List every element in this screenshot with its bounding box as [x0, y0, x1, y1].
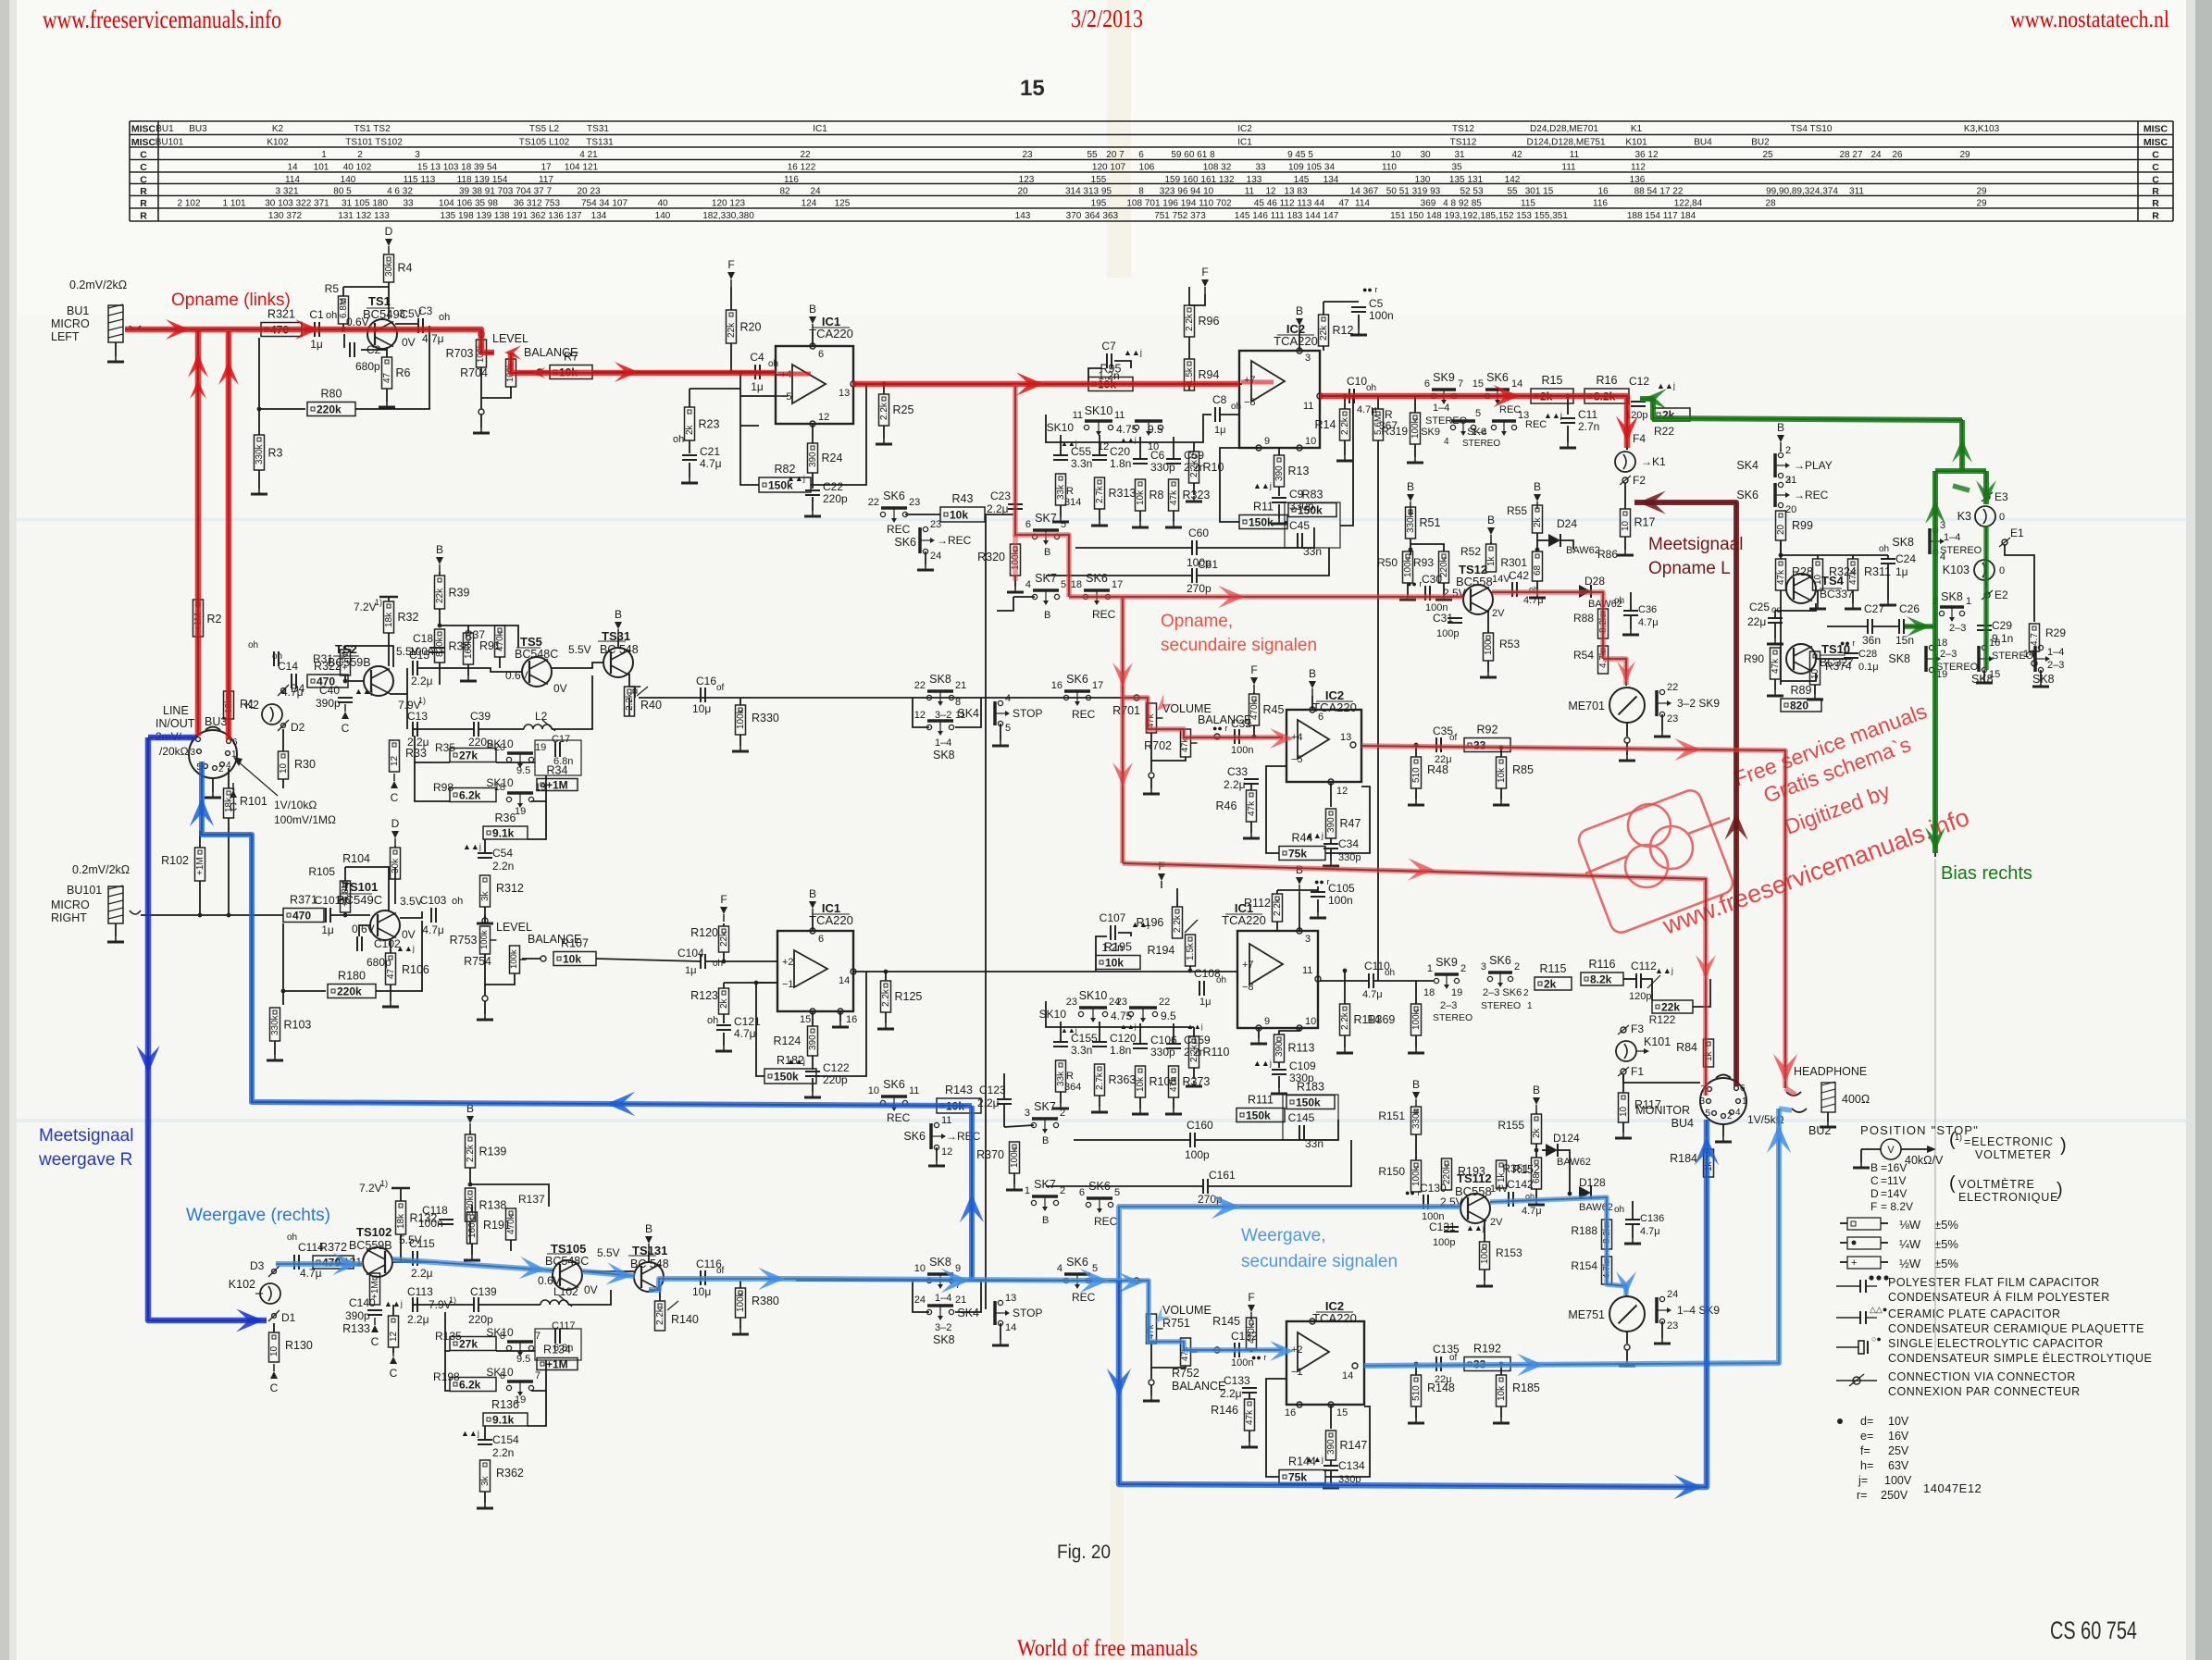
- svg-text:6: 6: [1318, 712, 1323, 723]
- svg-text:88 54 17 22: 88 54 17 22: [1634, 187, 1684, 197]
- resistor R152: [1497, 1160, 1507, 1188]
- svg-text:4.7μ: 4.7μ: [422, 923, 444, 936]
- svg-text:SK7: SK7: [1034, 1178, 1056, 1191]
- resistor R29: [2030, 624, 2040, 651]
- svg-text:1): 1): [449, 1295, 456, 1305]
- svg-text:7: 7: [1458, 378, 1463, 390]
- light blue path K102 to TS102: [276, 1261, 363, 1267]
- svg-text:R102: R102: [161, 854, 189, 867]
- svg-text:17: 17: [1092, 680, 1103, 691]
- filter resistors R314 R313 R8 R323: [1056, 474, 1066, 505]
- svg-text:LEVEL: LEVEL: [496, 921, 532, 934]
- resistor R150: [1411, 1160, 1422, 1192]
- svg-text:13 83: 13 83: [1284, 187, 1307, 197]
- svg-text:C: C: [371, 1335, 379, 1348]
- horizontal crease line upper: [17, 518, 2192, 521]
- svg-text:C39: C39: [470, 710, 491, 723]
- svg-text:B: B: [1533, 1084, 1540, 1096]
- svg-text:B: B: [1042, 1135, 1049, 1146]
- svg-text:131 132 133: 131 132 133: [338, 211, 390, 221]
- svg-text:R130: R130: [285, 1339, 313, 1352]
- switch SK4 STOP lower: [998, 1300, 1002, 1305]
- svg-text:106: 106: [1139, 163, 1155, 173]
- svg-text:2.2μ: 2.2μ: [977, 1096, 1000, 1109]
- svg-text:6: 6: [1079, 1187, 1085, 1198]
- svg-text:SK10: SK10: [1079, 989, 1108, 1002]
- svg-text:▲▲j: ▲▲j: [1466, 1223, 1485, 1233]
- svg-text:R112: R112: [1244, 897, 1271, 910]
- connector E3: [1984, 494, 1990, 500]
- svg-text:R30: R30: [294, 758, 316, 771]
- svg-text:20 23: 20 23: [577, 187, 600, 197]
- transistor TS112: [1460, 1194, 1490, 1223]
- connector F2: [1622, 477, 1628, 483]
- svg-text:+1M: +1M: [341, 651, 351, 670]
- svg-text:1μ: 1μ: [1199, 997, 1211, 1008]
- svg-text:111: 111: [1561, 163, 1576, 173]
- wires SK10 block lower: [445, 1312, 450, 1351]
- resistor R10: [1189, 452, 1199, 483]
- svg-text:3: 3: [1305, 353, 1311, 364]
- resistor R88: [1598, 609, 1609, 638]
- crimson headphone hook: [1785, 1088, 1796, 1095]
- svg-text:100n: 100n: [1369, 309, 1394, 322]
- svg-text:BU1: BU1: [155, 124, 174, 134]
- svg-text:R188: R188: [1571, 1224, 1597, 1237]
- svg-text:390p: 390p: [345, 1309, 370, 1322]
- svg-text:23: 23: [909, 497, 920, 508]
- light blue TS112 to ME751: [1490, 1197, 1626, 1295]
- svg-text:17: 17: [541, 163, 552, 173]
- svg-text:=ELECTRONIC: =ELECTRONIC: [1964, 1135, 2054, 1148]
- svg-text:4.7μ: 4.7μ: [734, 1027, 756, 1040]
- svg-text:LEFT: LEFT: [51, 330, 80, 343]
- svg-text:36n: 36n: [1862, 634, 1881, 647]
- svg-text:55: 55: [1507, 187, 1518, 197]
- svg-text:13: 13: [1340, 732, 1351, 743]
- svg-text:VOLTMÈTRE: VOLTMÈTRE: [1958, 1177, 2035, 1191]
- svg-text:68: 68: [1533, 564, 1543, 576]
- svg-text:21: 21: [1785, 475, 1796, 486]
- arrow to BU3 note: [237, 761, 278, 796]
- svg-text:R192: R192: [1473, 1343, 1501, 1356]
- capacitor C60: [1191, 540, 1193, 555]
- svg-text:R301: R301: [1500, 556, 1527, 569]
- svg-text:100mV/1MΩ: 100mV/1MΩ: [274, 813, 336, 826]
- svg-text:22k: 22k: [1661, 1001, 1680, 1014]
- svg-text:POLYESTER FLAT FILM CAPACIT: POLYESTER FLAT FILM CAPACITOR: [1888, 1276, 2100, 1289]
- svg-text:370: 370: [1066, 211, 1082, 221]
- svg-text:C5: C5: [1369, 297, 1384, 310]
- svg-text:B: B: [809, 303, 816, 316]
- svg-text:BC559B: BC559B: [349, 1239, 392, 1252]
- svg-text:1: 1: [321, 150, 327, 160]
- svg-text:2V: 2V: [1492, 608, 1505, 619]
- svg-text:(: (: [1949, 1173, 1956, 1194]
- svg-text:oh: oh: [673, 434, 684, 445]
- svg-text:470k: 470k: [1247, 1322, 1257, 1344]
- svg-text:LEVEL: LEVEL: [492, 332, 528, 345]
- svg-text:B: B: [1407, 480, 1414, 493]
- svg-text:R116: R116: [1589, 958, 1616, 971]
- svg-text:4 21: 4 21: [579, 150, 598, 160]
- svg-text:STOP: STOP: [1013, 707, 1042, 720]
- svg-text:1V/10kΩ: 1V/10kΩ: [274, 799, 317, 811]
- svg-text:R: R: [140, 198, 147, 209]
- svg-text:2–3: 2–3: [1940, 649, 1957, 660]
- wire under crimson paths: [1015, 386, 1069, 597]
- svg-text:BU101: BU101: [155, 138, 184, 148]
- svg-text:143: 143: [1015, 211, 1031, 221]
- svg-text:D4: D4: [291, 682, 305, 695]
- connector K1: [1615, 452, 1635, 472]
- wire bus y1384: [796, 1280, 1119, 1282]
- svg-text:▲▲j: ▲▲j: [1655, 966, 1673, 975]
- svg-text:10: 10: [1305, 1016, 1316, 1027]
- svg-text:▲▲j: ▲▲j: [1124, 348, 1142, 357]
- svg-text:MICRO: MICRO: [51, 317, 90, 330]
- svg-text:C17: C17: [552, 734, 570, 745]
- resistor R96: [1185, 305, 1195, 337]
- resistor R40: [634, 687, 636, 698]
- svg-text:TCA220: TCA220: [1222, 913, 1266, 927]
- svg-text:R39: R39: [449, 586, 470, 599]
- svg-text:R82: R82: [775, 463, 796, 476]
- svg-text:secundaire signalen: secundaire signalen: [1241, 1252, 1398, 1271]
- svg-text:R704: R704: [460, 366, 488, 379]
- svg-text:2k: 2k: [1532, 1127, 1542, 1138]
- light blue branch TS112: [1119, 1207, 1460, 1281]
- svg-text:C: C: [140, 175, 147, 186]
- svg-text:2–3: 2–3: [1440, 1000, 1457, 1011]
- svg-text:C13: C13: [407, 710, 428, 723]
- op-amp IC1 upper: [776, 346, 853, 424]
- svg-text:330k: 330k: [1406, 512, 1416, 533]
- svg-text:25V: 25V: [1888, 1444, 1909, 1457]
- svg-text:2: 2: [1785, 445, 1791, 456]
- svg-text:100k: 100k: [736, 1291, 746, 1312]
- capacitor C160: [1189, 1133, 1191, 1147]
- svg-text:13: 13: [1005, 1293, 1016, 1304]
- resistor R93: [1439, 551, 1449, 583]
- capacitor C161: [1202, 1179, 1204, 1194]
- balance pot R702: [1181, 729, 1191, 757]
- resistor R131: [370, 1273, 380, 1305]
- red path IC2 out to K1: [1320, 396, 1627, 448]
- svg-text:4.7μ: 4.7μ: [700, 457, 722, 470]
- switch SK8 24-21 bus lower: [926, 1309, 931, 1314]
- svg-text:9.5: 9.5: [516, 765, 530, 776]
- capacitor C42: [1511, 582, 1513, 597]
- svg-text:4.7: 4.7: [2030, 633, 2040, 646]
- resistor R120: [719, 926, 729, 952]
- svg-text:E3: E3: [1995, 490, 2008, 503]
- resistor R22 on green path: [1653, 408, 1690, 421]
- svg-text:K3,K103: K3,K103: [1964, 124, 2000, 134]
- svg-text:18: 18: [1071, 579, 1082, 590]
- svg-text:1: 1: [1025, 1185, 1030, 1196]
- svg-text:D28: D28: [1584, 575, 1605, 588]
- svg-text:4.7μ: 4.7μ: [1638, 617, 1659, 628]
- svg-text:2.2k: 2.2k: [1340, 1011, 1350, 1030]
- svg-text:820k: 820k: [435, 636, 445, 657]
- svg-text:BAW62: BAW62: [1566, 545, 1600, 556]
- svg-text:1): 1): [380, 1179, 388, 1188]
- svg-text:C113: C113: [407, 1285, 433, 1298]
- svg-text:R84: R84: [1676, 1041, 1697, 1054]
- svg-text:100k: 100k: [1010, 1146, 1020, 1168]
- svg-text:BC548C: BC548C: [545, 1255, 589, 1268]
- switch SK10 R35: [450, 749, 496, 762]
- svg-text:9.1k: 9.1k: [492, 1414, 515, 1427]
- svg-text:9: 9: [1264, 436, 1270, 447]
- resistor R180: [283, 923, 326, 991]
- svg-text:24: 24: [930, 551, 941, 562]
- svg-text:R20: R20: [740, 320, 762, 333]
- svg-text:19: 19: [535, 742, 546, 753]
- svg-text:22: 22: [868, 497, 879, 508]
- svg-text:18k: 18k: [384, 612, 394, 627]
- svg-text:REC: REC: [887, 1111, 911, 1124]
- capacitor C11: [1566, 394, 1571, 399]
- svg-text:15: 15: [1020, 76, 1045, 101]
- transistor TS10: [1786, 644, 1816, 674]
- resistor R372: [313, 1256, 354, 1269]
- svg-text:R43: R43: [952, 492, 974, 505]
- svg-text:16: 16: [1989, 638, 2000, 649]
- svg-text:C104: C104: [677, 947, 704, 960]
- svg-text:C61: C61: [1198, 558, 1218, 571]
- capacitor C140: [367, 1309, 382, 1311]
- resistor R330: [736, 705, 746, 735]
- svg-text:R330: R330: [752, 712, 779, 725]
- switch SK6 10-11 blue line: [880, 1100, 885, 1105]
- svg-text:→REC: →REC: [946, 1130, 981, 1143]
- svg-text:2.2k: 2.2k: [1173, 914, 1183, 933]
- svg-text:510: 510: [1411, 767, 1422, 783]
- resistor R82 feedback IC1: [740, 425, 759, 427]
- wire under red IC1-IC2: [853, 383, 1239, 385]
- resistor R374: [1810, 651, 1821, 685]
- capacitor C107 R195 feedback: [1096, 936, 1107, 971]
- left scanner edge strip: [0, 0, 9, 1660]
- capacitor C2: [343, 334, 345, 348]
- svg-text:10k: 10k: [1497, 767, 1507, 783]
- svg-text:6.2k: 6.2k: [459, 1379, 481, 1392]
- svg-text:oh: oh: [1879, 544, 1889, 554]
- svg-text:MISC: MISC: [131, 137, 156, 148]
- svg-text:100k: 100k: [736, 708, 746, 729]
- svg-text:390: 390: [1274, 1041, 1285, 1057]
- svg-text:751 752 373: 751 752 373: [1154, 211, 1206, 221]
- svg-text:C11: C11: [1578, 408, 1597, 421]
- svg-text:124: 124: [802, 199, 817, 209]
- svg-text:K2: K2: [272, 124, 284, 134]
- svg-text:C23: C23: [990, 489, 1011, 502]
- svg-text:R35: R35: [435, 741, 455, 754]
- svg-text:10: 10: [279, 762, 289, 774]
- svg-text:33: 33: [403, 199, 414, 209]
- svg-text:SK4: SK4: [957, 707, 979, 720]
- svg-text:▲▲j: ▲▲j: [1253, 1059, 1272, 1068]
- svg-text:C24: C24: [1895, 552, 1916, 565]
- supply F above R120: [720, 907, 727, 914]
- resistor R47: [1330, 782, 1332, 807]
- svg-text:99,90,89,324,374: 99,90,89,324,374: [1766, 187, 1838, 197]
- svg-text:TS101 TS102: TS101 TS102: [345, 138, 403, 148]
- svg-text:R180: R180: [338, 970, 366, 983]
- resistor R28: [1776, 559, 1786, 590]
- svg-text:F: F: [727, 258, 734, 271]
- svg-text:2.2k: 2.2k: [1273, 898, 1283, 916]
- svg-text:7.2V: 7.2V: [359, 1182, 382, 1195]
- svg-text:R31: R31: [313, 652, 333, 665]
- svg-text:Opname,: Opname,: [1161, 612, 1233, 631]
- svg-text:F: F: [1201, 266, 1208, 279]
- svg-text:5: 5: [1061, 579, 1066, 590]
- svg-text:39 38 91 703 704 37 7: 39 38 91 703 704 37 7: [459, 187, 553, 197]
- svg-text:R105: R105: [308, 865, 335, 878]
- svg-text:R183: R183: [1297, 1081, 1324, 1094]
- resistor R194: [1186, 935, 1196, 966]
- svg-text:9.5: 9.5: [516, 1354, 530, 1365]
- resistor R11: [1239, 515, 1287, 529]
- svg-text:C140: C140: [349, 1296, 376, 1309]
- svg-text:47k: 47k: [1169, 1076, 1179, 1092]
- svg-text:C120: C120: [1110, 1032, 1137, 1045]
- svg-text:SK4: SK4: [957, 1307, 979, 1319]
- svg-text:118 139 154: 118 139 154: [457, 175, 508, 185]
- svg-text:SK8: SK8: [929, 1256, 951, 1269]
- svg-text:4: 4: [1735, 1108, 1741, 1118]
- svg-text:R6: R6: [396, 366, 411, 379]
- svg-text:2.2k: 2.2k: [466, 1144, 476, 1162]
- resistor R123: [719, 988, 729, 1014]
- svg-text:23: 23: [1667, 1320, 1678, 1332]
- resistor R105: [341, 881, 351, 912]
- svg-text:D1: D1: [281, 1311, 296, 1324]
- svg-text:5: 5: [1005, 723, 1011, 734]
- svg-text:LINE: LINE: [163, 704, 189, 717]
- svg-text:R120: R120: [690, 926, 718, 939]
- svg-text:R3: R3: [268, 447, 283, 460]
- svg-text:TS101: TS101: [342, 880, 378, 894]
- resistor R6: [386, 347, 388, 357]
- svg-text:): ): [2060, 1135, 2067, 1156]
- svg-text:MONITOR: MONITOR: [1635, 1104, 1690, 1117]
- resistor R155: [1533, 1097, 1540, 1105]
- svg-text:VOLTMETER: VOLTMETER: [1975, 1148, 2052, 1161]
- svg-text:2.2k: 2.2k: [1185, 313, 1195, 331]
- svg-text:▲▲j: ▲▲j: [461, 1429, 479, 1438]
- resistor R115: [1535, 977, 1572, 990]
- svg-text:1: 1: [1527, 1001, 1533, 1011]
- svg-text:30: 30: [1420, 150, 1431, 160]
- resistor R17: [1624, 483, 1626, 509]
- svg-text:6: 6: [1138, 150, 1144, 160]
- svg-text:390: 390: [808, 452, 818, 467]
- transistor TS2: [364, 666, 393, 696]
- svg-text:R154: R154: [1571, 1259, 1597, 1272]
- svg-text:R54: R54: [1573, 649, 1594, 662]
- svg-text:oh: oh: [287, 1233, 297, 1243]
- svg-text:R52: R52: [1460, 545, 1481, 558]
- svg-text:R185: R185: [1512, 1381, 1540, 1394]
- svg-text:1): 1): [418, 696, 426, 705]
- svg-text:10k: 10k: [1136, 1076, 1146, 1092]
- capacitor C16: [700, 688, 702, 702]
- svg-text:D2: D2: [291, 721, 305, 734]
- svg-text:R36: R36: [495, 811, 516, 824]
- switch SK8 bottom 18-19: [1929, 645, 1933, 650]
- svg-text:2.7n: 2.7n: [1578, 420, 1599, 433]
- svg-text:TS1 TS2: TS1 TS2: [354, 124, 391, 134]
- connector K3: [1975, 506, 1995, 526]
- crimson path IC1 junction down: [1015, 384, 1069, 597]
- blue med path R143 vertical: [969, 1106, 975, 1281]
- resistor R16: [1584, 389, 1629, 403]
- svg-text:110: 110: [1382, 163, 1397, 173]
- svg-text:C: C: [2152, 162, 2159, 173]
- light blue headphone hook lower: [1779, 1109, 1792, 1110]
- svg-text:1–4: 1–4: [1944, 532, 1960, 543]
- capacitor C104: [700, 954, 702, 969]
- svg-text:World of free manuals: World of free manuals: [1017, 1636, 1198, 1660]
- svg-text:2.2k: 2.2k: [1340, 416, 1350, 435]
- svg-text:SK8: SK8: [929, 673, 951, 686]
- capacitor C18: [429, 647, 444, 649]
- svg-text:C159: C159: [1184, 1034, 1211, 1047]
- svg-text:MISC: MISC: [131, 124, 156, 135]
- capacitor C3: [395, 323, 418, 325]
- capacitor C39: [473, 722, 475, 737]
- svg-text:R44: R44: [1292, 832, 1313, 845]
- svg-text:R148: R148: [1427, 1381, 1455, 1394]
- svg-text:±5%: ±5%: [1934, 1257, 1958, 1270]
- svg-text:SK10: SK10: [1039, 1008, 1067, 1021]
- resistor R351: [1532, 1158, 1542, 1189]
- svg-text:R145: R145: [1212, 1315, 1240, 1328]
- svg-text:120 123: 120 123: [712, 199, 746, 209]
- svg-text:REC: REC: [1072, 708, 1096, 721]
- svg-text:R7: R7: [564, 351, 578, 364]
- svg-text:3k: 3k: [480, 1475, 491, 1486]
- resistor R362: [480, 1460, 491, 1492]
- resistor R24: [812, 424, 814, 443]
- svg-text:11: 11: [1302, 965, 1312, 976]
- svg-text:82: 82: [779, 187, 790, 197]
- svg-text:510: 510: [1411, 1385, 1422, 1401]
- component location table: [130, 121, 2173, 221]
- svg-text:C130: C130: [1420, 1182, 1447, 1195]
- svg-text:www.nostatatech.nl: www.nostatatech.nl: [2010, 7, 2169, 32]
- svg-text:C: C: [390, 1367, 398, 1380]
- svg-text:C134: C134: [1338, 1459, 1365, 1472]
- svg-text:100: 100: [1480, 1248, 1490, 1264]
- svg-text:23: 23: [930, 519, 941, 530]
- light blue branch volume lower: [1119, 1281, 1283, 1350]
- svg-text:= 8.2V: = 8.2V: [1881, 1200, 1913, 1213]
- capacitor C26: [1898, 619, 1900, 634]
- svg-text:SK6: SK6: [1489, 954, 1511, 967]
- svg-text:R51: R51: [1420, 516, 1441, 529]
- meter ME701: [1609, 688, 1645, 723]
- svg-text:−5: −5: [780, 391, 792, 403]
- capacitor C14b: [273, 651, 275, 666]
- svg-text:3–2: 3–2: [935, 710, 951, 721]
- svg-text:23: 23: [1022, 150, 1033, 160]
- svg-text:TS5 L2: TS5 L2: [529, 124, 560, 134]
